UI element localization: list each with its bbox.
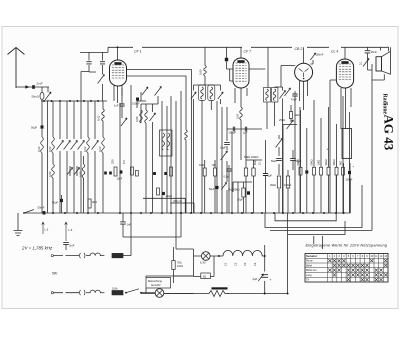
svg-text:2V = 1,785 kHz: 2V = 1,785 kHz: [21, 246, 53, 251]
junction: [150, 212, 152, 214]
trimmer: [45, 92, 51, 100]
svg-text:250: 250: [111, 159, 115, 164]
trimmer: [98, 75, 105, 84]
svg-text:50μF: 50μF: [209, 188, 215, 191]
trimmer: [57, 141, 64, 150]
capacitor 1&#956;F: [263, 174, 268, 176]
capacitor padder: [100, 62, 105, 64]
junction: [130, 212, 132, 214]
wire: [181, 91, 192, 213]
table frame: [305, 254, 388, 283]
capacitor 50mF: [43, 211, 46, 214]
resistor mains dropper: [212, 287, 228, 289]
svg-text:5W: 5W: [52, 272, 58, 276]
coil 0,80: [140, 110, 143, 123]
wire: [42, 222, 45, 234]
svg-text:10μF: 10μF: [117, 178, 123, 181]
trimmer: [121, 118, 127, 126]
junction: [43, 100, 45, 102]
svg-text:50kΩ: 50kΩ: [310, 159, 314, 165]
svg-text:47μF: 47μF: [291, 99, 297, 102]
junction: [51, 100, 53, 102]
capacitor 50&#956;F: [276, 158, 282, 160]
resistor: [244, 168, 247, 176]
wire: [80, 52, 108, 101]
junction: [264, 293, 266, 295]
capacitor 2mF antenna: [32, 85, 35, 89]
svg-text:5,0: 5,0: [122, 160, 126, 164]
junction: [180, 212, 182, 214]
resistor 1M: [203, 168, 206, 176]
wire: [65, 245, 67, 250]
wire step bus: [265, 185, 362, 228]
resistor 30k&#937;: [327, 167, 330, 175]
resistor 2k&#937;: [88, 199, 91, 208]
svg-text:100kΩ: 100kΩ: [284, 184, 291, 187]
tube CB2 inner: [299, 69, 309, 78]
capacitor 2mF: [63, 242, 69, 244]
resistor zigzag: [205, 291, 229, 297]
coil: [273, 89, 276, 101]
antenna: [8, 48, 25, 89]
junction: [251, 212, 253, 214]
wire: [61, 195, 63, 213]
junction: [231, 212, 233, 214]
wire: [102, 101, 104, 213]
wire: [267, 47, 283, 213]
wire: [246, 132, 262, 214]
wire main bus: [25, 212, 350, 214]
svg-text:C2: C2: [233, 262, 237, 266]
svg-text:0,80: 0,80: [79, 171, 83, 177]
wire: [344, 47, 346, 59]
wire: [300, 110, 302, 213]
resistor 25k: [277, 176, 280, 188]
wire: [219, 255, 265, 257]
wire: [342, 96, 344, 213]
wire: [41, 101, 43, 213]
wire: [287, 235, 289, 294]
wire: [141, 276, 194, 294]
resistor: [170, 167, 173, 176]
svg-text:0,80: 0,80: [198, 69, 202, 75]
speaker: [376, 57, 382, 71]
wire: [123, 213, 131, 256]
coil 0,02: [41, 137, 44, 153]
junction: [190, 212, 192, 214]
svg-text:50mF: 50mF: [38, 206, 45, 210]
junction: [287, 293, 289, 295]
wire: [73, 101, 75, 213]
trimmer: [92, 141, 99, 150]
svg-text:50μF: 50μF: [52, 201, 59, 205]
resistor 4k&#937;: [289, 112, 292, 119]
svg-text:0,5A: 0,5A: [112, 286, 118, 290]
trimmer: [363, 59, 369, 67]
wire: [121, 88, 123, 118]
resistor 250: [114, 167, 117, 176]
svg-text:AG 43: AG 43: [382, 115, 397, 151]
trimmer pot 25k: [287, 120, 294, 129]
wire supply bottom: [54, 292, 80, 294]
lamp box Beleuchtung: [146, 278, 171, 289]
wire: [227, 128, 262, 130]
wire: [311, 60, 314, 64]
wire: [240, 47, 242, 58]
svg-text:1nF: 1nF: [114, 104, 119, 108]
capacitor 50&#956;F: [60, 199, 63, 202]
switch: [24, 210, 34, 214]
junction: [119, 212, 121, 214]
coil 0,02: [102, 137, 105, 153]
wire: [66, 101, 68, 213]
coil: [185, 130, 188, 140]
svg-text:60kΩ: 60kΩ: [296, 159, 300, 165]
trimmer: [155, 87, 162, 96]
capacitor 50&#956;F: [41, 125, 44, 128]
junction: [90, 100, 92, 102]
junction: [76, 212, 78, 214]
svg-text:1MΩ: 1MΩ: [317, 160, 321, 166]
junction: [343, 212, 345, 214]
wire: [127, 70, 192, 104]
svg-text:0,02: 0,02: [48, 146, 52, 152]
junction: [170, 212, 172, 214]
wire: [227, 107, 241, 160]
svg-text:2μF: 2μF: [253, 277, 258, 281]
trimmer: [279, 91, 285, 99]
svg-text:TA: TA: [306, 279, 309, 282]
wire: [265, 140, 267, 160]
wire: [233, 182, 252, 213]
svg-text:100μF: 100μF: [229, 131, 237, 135]
svg-text:Lang: Lang: [306, 274, 312, 277]
wire right bus: [270, 229, 372, 231]
trimmer: [218, 92, 223, 99]
junction: [302, 212, 304, 214]
trimmer: [64, 141, 71, 150]
wire: [235, 69, 265, 107]
svg-text:50μF: 50μF: [271, 160, 277, 163]
coil: [162, 133, 165, 150]
svg-text:50mΩ: 50mΩ: [32, 95, 39, 99]
junction: [200, 212, 202, 214]
table grid: [305, 254, 388, 283]
svg-text:Rome: Rome: [306, 260, 313, 263]
trimmer: [149, 113, 155, 121]
IF can: [208, 85, 215, 101]
tube CB2: [295, 63, 313, 81]
wire: [292, 150, 294, 170]
wire: [52, 101, 54, 213]
svg-text:10μF: 10μF: [220, 146, 226, 150]
capacitor 50uF: [104, 172, 107, 175]
wire: [87, 101, 89, 213]
coil 0,02: [87, 137, 90, 153]
wire: [83, 156, 85, 213]
svg-text:100μF: 100μF: [132, 102, 140, 106]
svg-text:0,02: 0,02: [235, 113, 239, 119]
svg-text:25kΩ: 25kΩ: [270, 184, 276, 187]
connector: [80, 290, 85, 295]
junction: [87, 212, 89, 214]
wire: [119, 103, 121, 213]
tube CL4: [336, 59, 353, 88]
wire left bus: [41, 100, 107, 102]
capacitor +50uF: [162, 192, 165, 195]
svg-text:+: +: [270, 278, 272, 282]
junction: [241, 212, 243, 214]
resistor 78ohm: [172, 261, 175, 270]
capacitor 1nF below bus: [120, 222, 126, 224]
coil: [167, 133, 170, 150]
resistor: [252, 168, 255, 176]
capacitor 1&#956;F: [245, 127, 246, 132]
wire: [65, 222, 68, 241]
wire step bus: [288, 213, 345, 235]
wire: [194, 256, 220, 277]
junction: [323, 212, 325, 214]
wire: [226, 129, 228, 213]
junction: [83, 100, 85, 102]
trimmer: [142, 87, 148, 95]
svg-text:0,02: 0,02: [97, 115, 101, 121]
wire: [70, 166, 77, 176]
svg-text:6,3V: 6,3V: [200, 261, 206, 265]
IF can: [264, 88, 271, 103]
IF can: [272, 88, 278, 103]
svg-text:2mF: 2mF: [69, 244, 75, 248]
svg-text:2mF: 2mF: [36, 82, 43, 86]
coil: [201, 87, 204, 99]
table X marks: [328, 259, 331, 262]
wire: [141, 96, 158, 213]
wire: [217, 101, 232, 213]
coil choke: [86, 290, 104, 293]
svg-text:0,02: 0,02: [37, 146, 41, 152]
svg-text:2kΩ: 2kΩ: [92, 200, 97, 204]
svg-text:Mittel: Mittel: [306, 264, 312, 267]
capacitor 100&#956;F: [136, 98, 139, 101]
svg-text:Eingetragene Werte für 110V Ne: Eingetragene Werte für 110V Netzspannung: [306, 244, 388, 248]
wire: [330, 80, 351, 213]
fuse: [112, 253, 123, 257]
junction: [77, 100, 79, 102]
tube CF7: [233, 58, 249, 88]
wire: [303, 47, 305, 63]
wire: [162, 96, 176, 213]
svg-text:+50μF: +50μF: [166, 196, 173, 198]
svg-text:C4: C4: [253, 262, 257, 266]
capacitor: [164, 172, 167, 175]
wire: [123, 213, 181, 237]
trimmer: [71, 141, 78, 150]
capacitor 100&#956;F+: [348, 171, 351, 174]
capacitor 0,1uF: [226, 169, 231, 171]
resistor: [131, 167, 134, 175]
svg-text:25kΩ: 25kΩ: [279, 118, 285, 122]
wire: [314, 236, 323, 249]
coil 0,80: [145, 110, 148, 123]
junction: [161, 212, 163, 214]
svg-text:B2: B2: [203, 275, 207, 279]
capacitor 50&#956;F: [290, 158, 296, 160]
terminal: [51, 255, 53, 257]
svg-text:CF 1: CF 1: [134, 49, 142, 53]
wire: [59, 101, 61, 213]
resistor 7k: [214, 168, 217, 176]
coil 0,02 cath: [240, 107, 243, 120]
svg-text:100mF: 100mF: [316, 54, 324, 57]
resistor 1M&#937;: [320, 167, 323, 175]
svg-text:30kΩ: 30kΩ: [324, 159, 328, 165]
resistor 60k&#937;: [299, 167, 302, 175]
wire: [131, 85, 146, 213]
junction: [59, 100, 61, 102]
svg-text:Radione: Radione: [382, 94, 388, 115]
wire: [313, 100, 315, 213]
svg-text:1μF: 1μF: [268, 174, 273, 178]
coil: [266, 89, 269, 101]
switch: [221, 183, 226, 190]
wire: [174, 247, 194, 283]
trimmer: [74, 168, 79, 175]
wire: [336, 124, 338, 213]
fuse 0,5A: [112, 291, 123, 295]
junction: [343, 212, 345, 214]
wire: [294, 91, 296, 101]
wire step bus: [275, 175, 336, 221]
svg-text:40kΩ: 40kΩ: [332, 159, 336, 165]
svg-text:CF 7: CF 7: [244, 49, 253, 53]
switch: [276, 139, 283, 148]
svg-text:0,02: 0,02: [83, 146, 87, 152]
capacitor: [153, 172, 156, 175]
svg-text:bei 110V: bei 110V: [151, 284, 161, 287]
wire: [368, 47, 373, 70]
svg-text:50μF: 50μF: [31, 126, 38, 130]
capacitor 10&#956;F: [224, 142, 230, 144]
wire: [372, 47, 390, 230]
svg-text:C3: C3: [243, 262, 247, 266]
switch: [126, 289, 139, 293]
wire: [306, 128, 308, 213]
junction: [117, 46, 119, 48]
connector: [80, 253, 85, 258]
junction: [261, 212, 263, 214]
junction: [64, 212, 66, 214]
coil 0,80: [204, 66, 207, 77]
svg-text:8MΩ: 8MΩ: [254, 160, 257, 165]
wire heater link: [176, 213, 194, 256]
resistor: [157, 188, 160, 195]
wire: [194, 99, 221, 213]
coil 0,80: [82, 164, 85, 178]
wire: [265, 160, 267, 213]
capacitor padder: [86, 62, 91, 64]
trimmer: [258, 274, 263, 281]
wire: [117, 47, 119, 60]
coil C1 C2 C3 C4: [223, 250, 262, 256]
coil 0,02: [102, 109, 105, 121]
wire step: [143, 198, 185, 213]
capacitor 1nF: [119, 104, 124, 106]
wire: [141, 104, 146, 213]
coil: [210, 87, 213, 99]
resistor 100k: [286, 176, 289, 188]
switch: [221, 151, 228, 160]
trimmer grid cap: [310, 53, 315, 60]
wire: [283, 101, 300, 213]
lamp 6.3V: [202, 252, 211, 261]
tube CF1: [110, 60, 127, 86]
wire step: [170, 203, 194, 213]
junction: [210, 212, 212, 214]
svg-text:110Ω: 110Ω: [177, 265, 183, 268]
capacitor 50uF blob: [216, 186, 219, 189]
wire: [281, 66, 308, 111]
terminal: [51, 292, 53, 294]
wire: [264, 245, 266, 294]
svg-text:0,80: 0,80: [48, 171, 52, 177]
junction: [52, 212, 54, 214]
capacitor: [305, 170, 308, 173]
junction: [180, 212, 182, 214]
wire: [344, 163, 351, 212]
junction: [69, 100, 71, 102]
svg-text:Beleuchtung: Beleuchtung: [148, 280, 163, 283]
resistor 40k&#937;: [335, 167, 338, 175]
svg-text:25mF: 25mF: [371, 51, 378, 54]
junction: [97, 100, 99, 102]
capacitor 47uF: [292, 94, 297, 96]
junction: [264, 255, 266, 257]
wire: [283, 105, 297, 125]
svg-text:2kΩ: 2kΩ: [339, 161, 343, 166]
junction: [292, 212, 294, 214]
junction: [97, 212, 99, 214]
resistor 50k&#937;: [313, 167, 316, 175]
capacitor 100&#956;F: [233, 127, 234, 132]
wire top bus: [109, 47, 389, 51]
capacitor 50uF: [109, 172, 112, 175]
junction: [312, 212, 314, 214]
svg-text:Senator: Senator: [306, 254, 318, 258]
capacitor 10uF: [120, 170, 123, 173]
input arrow: [26, 86, 30, 89]
capacitor 25mF: [365, 51, 371, 53]
svg-text:L.6: L.6: [45, 228, 49, 232]
wire: [328, 107, 330, 213]
wire: [164, 293, 288, 295]
capacitor 2uF+: [261, 275, 268, 278]
junction: [273, 212, 275, 214]
trimmer: [78, 141, 85, 150]
svg-text:0,80: 0,80: [135, 116, 139, 122]
output transformer: [342, 129, 352, 159]
svg-text:(2W) mF: (2W) mF: [173, 201, 183, 203]
trimmer: [191, 92, 196, 99]
wire: [349, 179, 351, 213]
svg-text:L.6: L.6: [69, 228, 73, 232]
junction: [218, 255, 220, 257]
wire: [80, 101, 82, 213]
svg-text:Mittel Gm.: Mittel Gm.: [306, 269, 318, 272]
junction: [221, 212, 223, 214]
wire: [42, 87, 48, 101]
wire: [227, 47, 234, 81]
svg-text:1MΩ: 1MΩ: [199, 164, 204, 167]
